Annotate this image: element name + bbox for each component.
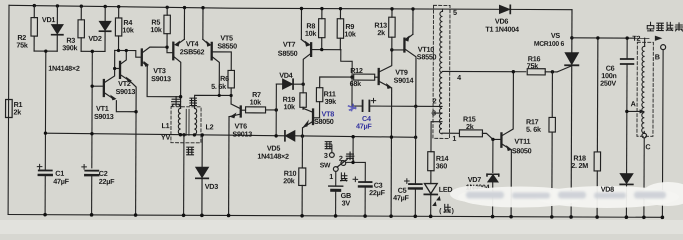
diode VD2 [99, 6, 110, 51]
capacitor C6 [620, 38, 633, 173]
svg-text:VS: VS [551, 31, 561, 40]
svg-text:5: 5 [453, 8, 457, 17]
transformer L1/L2 dashed box [171, 107, 201, 143]
wire T1 tap to R14 [431, 122, 442, 152]
svg-text:S8550: S8550 [217, 41, 237, 50]
svg-text:S9014: S9014 [394, 76, 414, 85]
wire top supply rail [9, 5, 572, 9]
transistor VT6 [229, 104, 246, 216]
wire VT1/VT2 emitters to ground [135, 112, 137, 215]
transistor VT1 [92, 50, 136, 111]
diode VD7 [487, 139, 499, 216]
svg-text:39k: 39k [325, 97, 337, 106]
wire R4 node to VT3 base [115, 50, 142, 57]
wire VD4 anode column [275, 84, 277, 135]
inductor L2 winding [194, 108, 196, 134]
wire T1 pin4 [442, 70, 525, 72]
svg-text:S9013: S9013 [94, 112, 114, 121]
svg-text:2k: 2k [466, 122, 474, 131]
wire stair from VT7 base bus to R12 node [341, 50, 353, 77]
transistor VT2 [114, 50, 136, 111]
svg-text:3: 3 [324, 151, 328, 160]
svg-text:10k: 10k [150, 25, 162, 34]
svg-text:10k: 10k [344, 29, 356, 38]
svg-text:S8050: S8050 [314, 117, 334, 126]
svg-text:C: C [645, 142, 650, 151]
label black lead [187, 147, 194, 155]
svg-text:S8550: S8550 [278, 49, 298, 58]
capacitor C1 [37, 133, 52, 215]
svg-text:10k: 10k [122, 25, 134, 34]
switch SW contact 3 [329, 153, 334, 158]
svg-text:SW: SW [320, 162, 331, 169]
svg-text:MCR100 6: MCR100 6 [534, 41, 565, 48]
switch SW contact 2 [341, 161, 346, 166]
svg-text:47µF: 47µF [53, 177, 69, 186]
resistor R15 [459, 130, 493, 140]
wire tap A to T2 [627, 110, 640, 112]
resistor R4 [115, 7, 122, 51]
svg-text:1N4148×2: 1N4148×2 [48, 64, 80, 73]
label yellow lead [172, 97, 181, 107]
svg-text:1N4148×2: 1N4148×2 [257, 152, 289, 161]
svg-text:S9013: S9013 [232, 129, 252, 138]
wire VT10 collector to bus [415, 106, 417, 135]
wire tap down to VT1 base and C2 [91, 51, 94, 167]
svg-text:B: B [655, 52, 660, 61]
inductor T1 winding [439, 11, 442, 133]
wire R3-VD2 junction bar [81, 50, 105, 52]
transformer core lines [186, 109, 189, 135]
diode VD1 [52, 6, 63, 51]
wire mid bus left [45, 133, 285, 136]
svg-text:10k: 10k [284, 102, 296, 111]
svg-text:1: 1 [452, 134, 456, 143]
svg-text:1: 1 [329, 172, 333, 181]
svg-text:2k: 2k [377, 28, 385, 37]
wire anode rail to T2 [572, 37, 649, 39]
svg-text:T2: T2 [632, 34, 640, 43]
resistor R12 [354, 74, 379, 80]
resistor R6 [228, 70, 235, 104]
wire left rail [7, 5, 10, 214]
transistor VT10 [404, 9, 416, 106]
svg-text:3: 3 [432, 108, 436, 117]
svg-text:T1 1N4004: T1 1N4004 [485, 25, 519, 34]
svg-text:YV: YV [161, 133, 171, 142]
resistor R1 [6, 99, 13, 117]
resistor R16 [527, 69, 557, 75]
svg-text:2: 2 [433, 96, 437, 105]
label blue lead [190, 98, 197, 105]
node top rail junctions [32, 4, 186, 137]
transistor VT8 [302, 108, 319, 135]
svg-text:L1: L1 [161, 121, 169, 130]
svg-text:360: 360 [436, 161, 448, 170]
resistor R13 [389, 9, 405, 50]
resistor R3 [78, 6, 85, 51]
svg-text:2. 2M: 2. 2M [571, 161, 588, 170]
resistor R18 [594, 38, 601, 217]
electrode B terminal [661, 45, 666, 50]
transistor VT11 [493, 72, 514, 217]
resistor R14 [428, 152, 435, 184]
wire tap to bus [44, 51, 46, 133]
resistor R19 [300, 84, 307, 109]
wire bottom ground rail [8, 214, 662, 217]
transformer T2 dashed box [637, 42, 653, 136]
wire T1 pin3 stub [432, 112, 442, 114]
resistor R8 [319, 9, 326, 50]
transistor VT9 [378, 50, 392, 216]
svg-text:2SB562: 2SB562 [180, 47, 205, 56]
transistor VT5 [203, 8, 232, 96]
svg-text:A: A [631, 99, 636, 108]
svg-text:VD3: VD3 [205, 182, 219, 191]
capacitor C3 [353, 177, 372, 216]
svg-text:S8050: S8050 [512, 146, 532, 155]
svg-text:S9013: S9013 [116, 87, 136, 96]
label yellow [346, 152, 354, 160]
svg-text:10k: 10k [305, 29, 317, 38]
svg-text:47µF: 47µF [356, 122, 372, 131]
blue ink blot [349, 104, 356, 110]
svg-text:4: 4 [457, 73, 461, 82]
label discharge ignition [647, 22, 683, 31]
transistor VT4 [173, 8, 184, 109]
battery GB [329, 171, 343, 216]
svg-text:R12: R12 [350, 66, 363, 75]
switch lever [337, 160, 346, 167]
node pin2/C4/VT10 [414, 105, 417, 108]
diode VD4 [276, 79, 303, 89]
paper margin below ground rail [0, 220, 683, 234]
diode VD5 in bus [285, 131, 295, 141]
terminal C of T2 [642, 133, 647, 138]
wire black lead to ground [183, 135, 185, 215]
node R2/VD1 [44, 49, 47, 52]
svg-text:2k: 2k [14, 108, 22, 117]
thyristor VS [557, 10, 579, 217]
inductor T2 winding [642, 46, 645, 133]
svg-text:47µF: 47µF [393, 193, 409, 202]
capacitor C5 [404, 136, 422, 217]
transistor VT7 [301, 8, 341, 84]
resistor R17 [549, 72, 556, 217]
capacitor C2 [82, 165, 99, 215]
resistor R10 [299, 135, 306, 216]
wire T1 pin2 [416, 105, 442, 107]
svg-text:20k: 20k [283, 176, 295, 185]
inductor L1 winding [178, 108, 180, 134]
svg-text:250V: 250V [600, 79, 616, 88]
resistor R2 [31, 6, 38, 52]
resistor R9 [337, 9, 344, 50]
svg-text:3V: 3V [342, 198, 351, 207]
diode VD6 [499, 5, 510, 13]
svg-text:): ) [452, 208, 454, 215]
resistor R5 [164, 7, 174, 52]
svg-text:75k: 75k [527, 61, 539, 70]
LED green [424, 184, 437, 217]
svg-text:5. 6k: 5. 6k [526, 125, 541, 134]
svg-text:68k: 68k [350, 79, 362, 88]
svg-text:VD2: VD2 [88, 34, 102, 43]
wire R2-VD1 junction bar [34, 50, 57, 52]
label blue [325, 142, 331, 149]
svg-text:22µF: 22µF [99, 177, 115, 186]
switch SW contact 1 [333, 167, 338, 172]
diode VD8 [620, 174, 633, 218]
watermark white blot [450, 182, 683, 208]
svg-text:VT11: VT11 [514, 137, 530, 146]
svg-text:390k: 390k [62, 43, 77, 52]
svg-text:S9013: S9013 [151, 74, 171, 83]
svg-text:5. 6k: 5. 6k [211, 82, 226, 91]
node R7 right [275, 108, 278, 111]
svg-text:VT7: VT7 [283, 40, 296, 49]
diode VD3 [196, 135, 209, 216]
wire T1 pin1 to R15 [442, 132, 459, 134]
wire switch pole to bus riser [346, 162, 366, 182]
svg-text:75k: 75k [16, 41, 28, 50]
wire blue lead L2 top to VT6 collector [195, 95, 232, 108]
svg-text:L2: L2 [205, 122, 213, 131]
svg-text:2: 2 [339, 154, 343, 163]
svg-text:VD1: VD1 [42, 15, 56, 24]
wire T2 top to spark arrow [644, 38, 646, 46]
transformer T1 dashed box [433, 5, 450, 138]
resistor R7 [246, 107, 277, 113]
svg-text:10k: 10k [250, 98, 262, 107]
svg-text:22µF: 22µF [369, 188, 385, 197]
wire mid bus right [294, 136, 415, 137]
resistor R11 [316, 77, 352, 118]
label red [341, 173, 347, 181]
svg-text:VD8: VD8 [601, 185, 615, 194]
transistor VT3 [142, 47, 181, 97]
svg-text:VD4: VD4 [279, 71, 293, 80]
capacitor C4 [352, 77, 416, 111]
wire T1 pin5 to rail [441, 9, 443, 11]
